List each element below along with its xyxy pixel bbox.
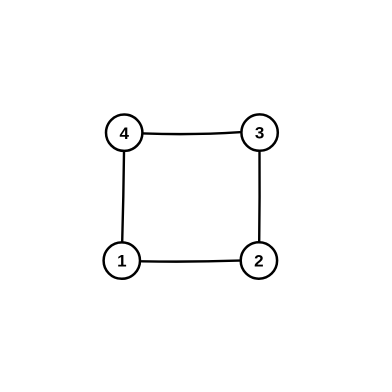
svg-text:4: 4 <box>119 124 129 143</box>
svg-text:1: 1 <box>117 252 126 271</box>
node 4 <box>106 115 142 151</box>
edge 3-2 <box>258 152 261 241</box>
edge 1-2 <box>142 261 240 262</box>
edge 4-1 <box>122 152 124 241</box>
edge 4-3 <box>144 132 240 134</box>
svg-text:2: 2 <box>254 252 263 271</box>
node 1 <box>104 242 140 278</box>
node 3 <box>241 114 277 150</box>
node 2 <box>241 242 277 278</box>
svg-text:3: 3 <box>255 124 264 143</box>
